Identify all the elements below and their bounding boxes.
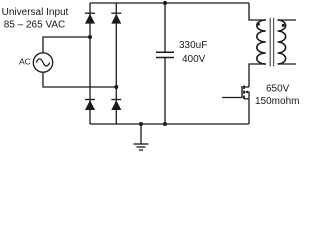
wire: primary top lead (rail corner down and right to winding) xyxy=(249,3,266,20)
svg-text:650V: 650V xyxy=(266,83,290,94)
wire: top rail (bridge output + to transformer primary) xyxy=(90,2,249,4)
transformer T1 core lines xyxy=(270,18,273,67)
transformer T1 secondary winding xyxy=(278,20,286,64)
diode D4 bottom-right (cathode bar) xyxy=(111,99,121,101)
transistor Q1 MOSFET gate bar xyxy=(241,86,243,98)
wire: AC source bottom lead to right branch xyxy=(43,72,116,87)
wire: MOSFET source down to bottom rail xyxy=(248,99,250,124)
transistor Q1 MOSFET source connection xyxy=(244,98,249,100)
AC source V1 circle xyxy=(33,53,52,72)
wire: capacitor bottom lead xyxy=(164,58,166,125)
node: junction dot ground xyxy=(139,122,143,126)
svg-text:150mohm: 150mohm xyxy=(255,96,299,107)
svg-text:85 – 265 VAC: 85 – 265 VAC xyxy=(4,20,66,31)
diode D3 bottom-left (cathode bar) xyxy=(85,99,95,101)
wire: AC source top lead to left branch xyxy=(43,37,90,53)
node: junction dot capacitor top xyxy=(163,1,167,5)
transistor Q1 MOSFET body arrow shaft and tie to source xyxy=(246,92,249,99)
diode D3 bottom-left (anode triangle) xyxy=(85,100,95,110)
capacitor C1 bottom plate xyxy=(156,57,174,59)
diode D2 top-right (cathode bar) xyxy=(111,12,121,14)
svg-text:AC: AC xyxy=(19,57,31,67)
transformer T1 secondary polarity dot xyxy=(282,24,285,27)
wire: secondary top lead xyxy=(278,19,296,21)
node: junction dot capacitor bottom xyxy=(163,122,167,126)
transistor Q1 MOSFET gate lead xyxy=(222,97,242,99)
wire: primary bottom lead (winding left then down to MOSFET drain) xyxy=(249,64,266,87)
wire: capacitor top lead xyxy=(164,3,166,52)
diode D4 bottom-right (anode triangle) xyxy=(111,100,121,110)
transistor Q1 MOSFET drain connection xyxy=(244,86,249,88)
diode D2 top-right (anode triangle) xyxy=(111,14,121,24)
wire: bottom rail (bridge - / ground rail) xyxy=(90,123,249,125)
transistor Q1 MOSFET channel segment body xyxy=(243,91,245,94)
svg-text:Universal Input: Universal Input xyxy=(2,7,69,18)
diode D1 top-left (cathode bar) xyxy=(85,12,95,14)
wire: secondary bottom lead xyxy=(278,63,296,65)
transformer T1 primary winding xyxy=(257,20,266,64)
transistor Q1 MOSFET channel segment drain-side xyxy=(243,86,245,90)
AC source V1 sine wave xyxy=(36,59,50,66)
diode D1 top-left (anode triangle) xyxy=(85,14,95,24)
wire: left bridge branch vertical xyxy=(89,3,91,124)
node: junction dot AC bottom / right branch xyxy=(114,85,118,89)
transistor Q1 MOSFET channel segment source-side xyxy=(243,96,245,100)
svg-text:400V: 400V xyxy=(182,54,206,65)
ground xyxy=(134,124,149,150)
node: junction dot AC top / left branch xyxy=(88,35,92,39)
wire: right bridge branch vertical xyxy=(115,3,117,124)
svg-text:330uF: 330uF xyxy=(179,40,207,51)
capacitor C1 top plate xyxy=(156,51,174,53)
transformer T1 primary polarity dot xyxy=(257,23,260,26)
transistor Q1 MOSFET body arrow head xyxy=(245,91,248,94)
